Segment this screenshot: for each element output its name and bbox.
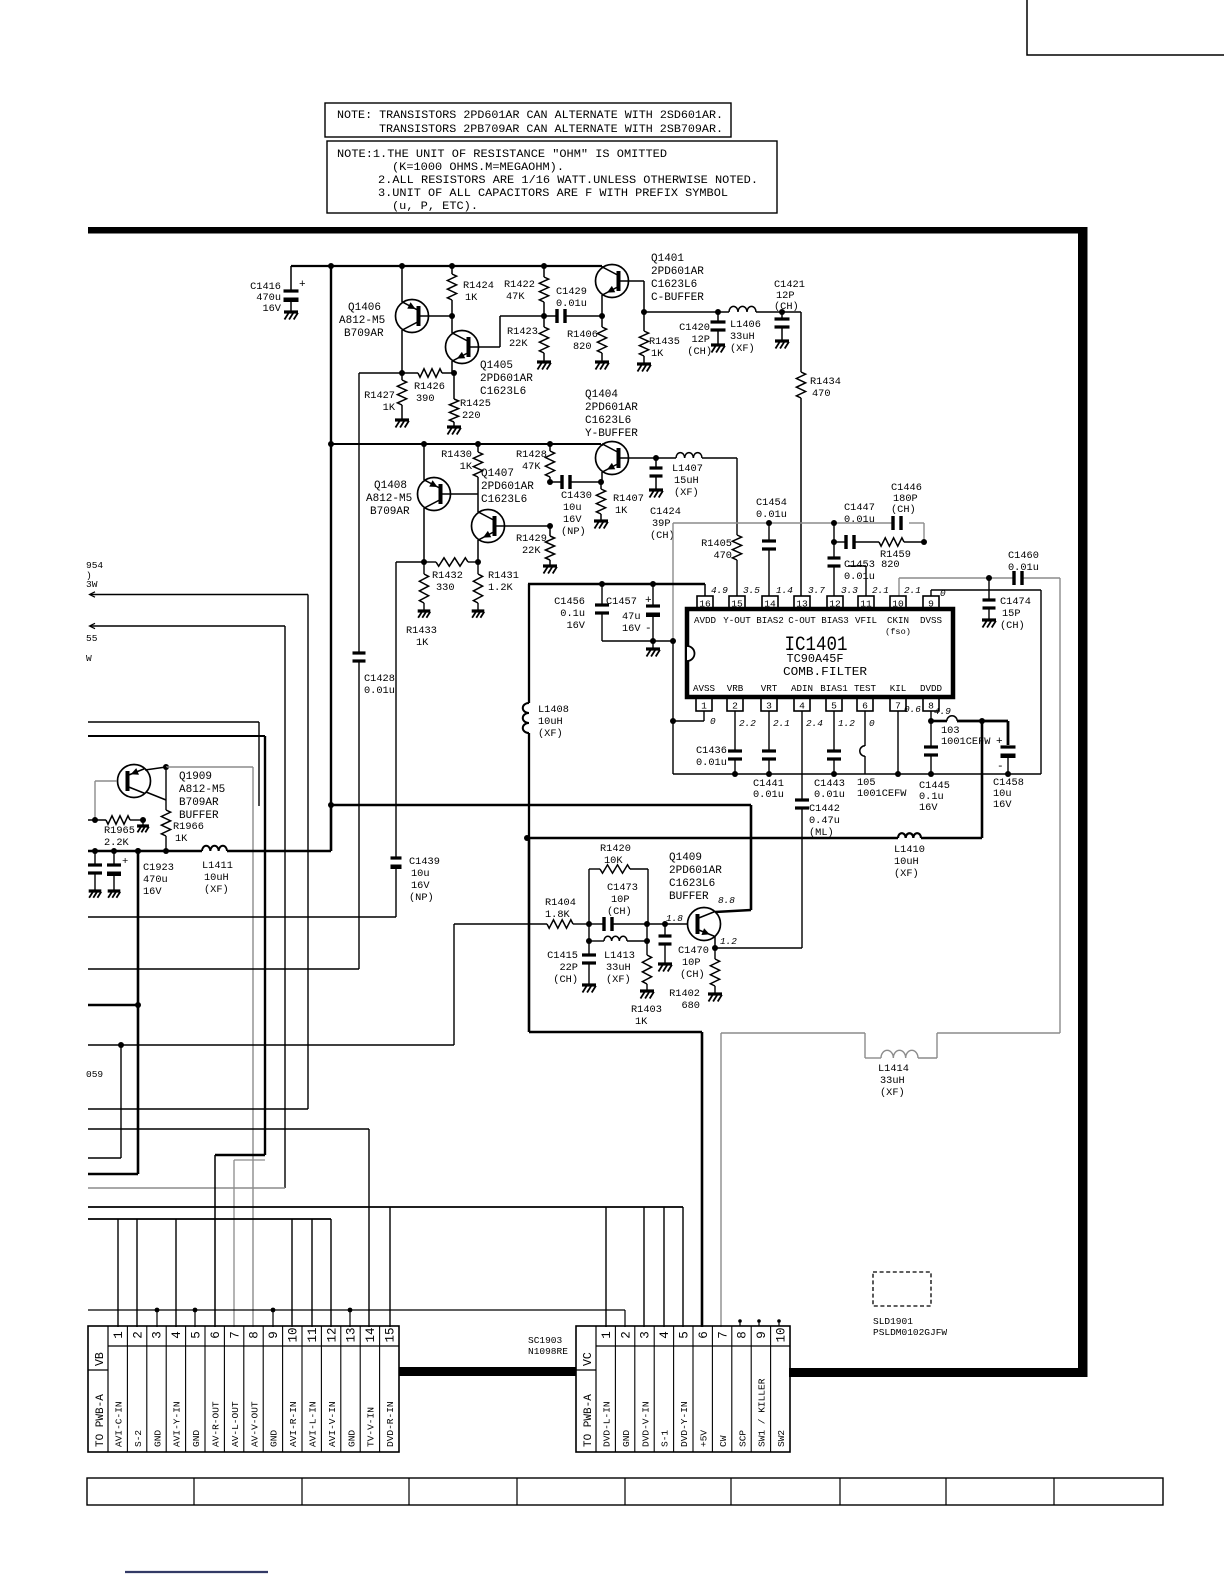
resistor R1422 [541,263,547,269]
svg-text:6: 6 [862,701,868,712]
svg-text:AVI-R-IN: AVI-R-IN [288,1401,299,1447]
capacitor C1460 [1012,571,1015,585]
svg-text:330: 330 [436,582,455,594]
svg-text:10: 10 [287,1327,301,1342]
svg-text:16V: 16V [622,623,641,635]
wire x=121 stub [120,1045,122,1158]
svg-text:C1430: C1430 [561,490,592,502]
svg-text:R1433: R1433 [406,625,437,637]
svg-text:GND: GND [269,1430,280,1447]
svg-text:1.8: 1.8 [666,913,683,924]
svg-text:15uH: 15uH [674,475,699,487]
resistor R1403 [642,955,651,984]
resistor R1402 [714,948,716,959]
svg-text:C1923: C1923 [143,862,174,874]
svg-text:5: 5 [678,1331,692,1339]
svg-text:A812-M5: A812-M5 [366,493,412,505]
transistor Q1401 [601,266,603,268]
svg-text:7: 7 [895,701,901,712]
svg-text:NOTE:1.THE UNIT OF RESISTANCE: NOTE:1.THE UNIT OF RESISTANCE "OHM" IS O… [337,149,667,161]
capacitor C1424 [653,455,659,461]
ground of R1425 [447,425,461,428]
svg-text:AVI-C-IN: AVI-C-IN [114,1401,125,1447]
svg-text:Y-OUT: Y-OUT [723,615,751,626]
svg-text:TO PWB-A: TO PWB-A [583,1394,595,1447]
svg-text:0.1u: 0.1u [560,608,585,620]
svg-text:680: 680 [681,1000,700,1012]
svg-text:BIAS1: BIAS1 [820,683,848,694]
svg-text:14: 14 [764,599,776,610]
resistor R1966 [165,767,167,810]
wire left chain to x=360 [359,372,402,374]
svg-text:R1428: R1428 [516,449,547,461]
svg-text:(XF): (XF) [880,1087,905,1099]
svg-text:2PD601AR: 2PD601AR [480,373,533,385]
svg-text:9: 9 [755,1331,769,1339]
svg-text:BIAS3: BIAS3 [821,615,849,626]
transistor Q1408 [421,441,427,447]
svg-text:AVDD: AVDD [694,615,717,626]
svg-text:1K: 1K [615,505,628,517]
capacitor C1441 [768,711,770,751]
svg-text:+: + [299,279,306,291]
capacitor C1439 [395,562,397,858]
wire C-out row [644,311,718,313]
svg-text:39P: 39P [652,518,671,530]
wire gray return y=1188 [88,1187,285,1189]
svg-text:C1470: C1470 [678,945,709,957]
wire gray pin7 feed [234,1159,265,1161]
wire emitter to pin4 net [715,947,802,949]
svg-text:059: 059 [86,1069,103,1080]
svg-text:KIL: KIL [890,683,907,694]
capacitor C1470 at base [662,921,668,927]
svg-text:11: 11 [860,599,872,610]
capacitor C1923 [113,851,115,865]
svg-text:16V: 16V [919,802,938,814]
svg-text:16V: 16V [566,620,585,632]
capacitor C1447 [831,520,837,526]
wire thick +5V drop x=982 [981,721,984,838]
svg-text:(fso): (fso) [885,627,911,637]
IC1401 bottom pin boxes 1..8 [696,698,712,711]
svg-text:0.01u: 0.01u [696,757,727,769]
svg-text:AV-V-OUT: AV-V-OUT [249,1401,260,1447]
wire GND distribution y=1310 [88,1309,625,1311]
svg-text:TO PWB-A: TO PWB-A [95,1394,107,1447]
svg-text:W: W [86,653,92,664]
ferrite bead 103 on pin8 [931,720,947,723]
ferrite bead 105 on pin6 [864,711,866,746]
bottom blue rule [125,1571,268,1573]
svg-text:BIAS2: BIAS2 [756,615,784,626]
svg-text:2.4: 2.4 [806,718,823,729]
svg-text:C1442: C1442 [809,803,840,815]
svg-text:PSLDM0102GJFW: PSLDM0102GJFW [873,1327,947,1338]
svg-text:TV-V-IN: TV-V-IN [366,1407,377,1447]
svg-text:10uH: 10uH [538,716,563,728]
resistor R1405 [702,457,737,459]
nodes on bus y=851 [92,848,98,854]
resistor R1434 [800,312,802,372]
wire ground line y=774 [673,773,1041,775]
resistor R1429 [547,523,553,529]
svg-text:3.UNIT OF ALL CAPACITORS ARE F: 3.UNIT OF ALL CAPACITORS ARE F WITH PREF… [378,188,728,200]
wire double line y=736 to pin6 jog [88,735,265,737]
svg-text:DVSS: DVSS [920,615,943,626]
svg-text:10uH: 10uH [894,856,919,868]
svg-text:COMB.FILTER: COMB.FILTER [783,665,867,679]
svg-text:2.1: 2.1 [872,585,889,596]
resistor R1432 [423,562,425,574]
svg-text:22K: 22K [522,545,541,557]
svg-text:DVD-V-IN: DVD-V-IN [640,1401,651,1447]
svg-text:47K: 47K [506,291,525,303]
capacitor C1443 [833,711,835,751]
svg-text:R1432: R1432 [432,570,463,582]
note box 1 border [325,103,731,137]
svg-text:C-BUFFER: C-BUFFER [651,292,704,304]
inductor L1410 [898,833,921,838]
capacitor C1454 [766,520,772,526]
svg-text:SCP: SCP [737,1430,748,1447]
svg-text:15: 15 [731,599,743,610]
thick top border [88,227,1087,234]
svg-text:1K: 1K [651,348,664,360]
svg-text:14: 14 [364,1327,378,1342]
svg-text:+: + [122,856,128,868]
svg-text:0.6: 0.6 [904,704,921,715]
resistor R1427 [401,373,403,380]
svg-text:C1460: C1460 [1008,550,1039,562]
svg-text:12: 12 [325,1327,339,1342]
svg-text:5: 5 [190,1331,204,1339]
svg-text:C1424: C1424 [650,506,681,518]
capacitor C1428 [353,651,366,654]
thick right border [1078,227,1088,1377]
svg-text:10uH: 10uH [204,872,229,884]
svg-text:3: 3 [639,1331,653,1339]
capacitor C1416 [290,266,292,291]
svg-text:R1405: R1405 [701,538,732,550]
resistor R1424 [449,263,455,269]
capacitor C1457 [650,581,656,587]
svg-text:L1407: L1407 [672,463,703,475]
svg-text:1.2K: 1.2K [488,582,514,594]
svg-text:1001CEFW: 1001CEFW [857,788,907,800]
svg-text:(CH): (CH) [1000,620,1025,632]
svg-text:C1439: C1439 [409,856,440,868]
svg-text:(CH): (CH) [774,301,799,313]
svg-text:R1407: R1407 [613,493,644,505]
svg-text:B709AR: B709AR [344,328,384,340]
svg-text:8: 8 [248,1331,262,1339]
svg-text:22K: 22K [509,338,528,350]
svg-text:C1473: C1473 [607,882,638,894]
svg-text:R1424: R1424 [463,280,494,292]
svg-text:(XF): (XF) [538,728,563,740]
svg-text:GND: GND [346,1430,357,1447]
svg-text:4: 4 [658,1331,672,1339]
svg-text:22P: 22P [559,962,578,974]
svg-text:3W: 3W [86,579,98,590]
svg-text:(K=1000 OHMS.M=MEGAOHM).: (K=1000 OHMS.M=MEGAOHM). [392,162,564,174]
svg-text:R1429: R1429 [516,533,547,545]
svg-text:C1415: C1415 [547,950,578,962]
svg-text:ADIN: ADIN [791,683,813,694]
svg-text:GND: GND [152,1430,163,1447]
svg-text:Q1404: Q1404 [585,389,618,401]
svg-text:(u, P, ETC).: (u, P, ETC). [392,201,478,213]
wire arrow line y=626 [90,623,96,628]
svg-text:1.8K: 1.8K [545,909,571,921]
svg-text:VB: VB [94,1352,107,1366]
svg-text:9: 9 [267,1331,281,1339]
resistor R1423 [541,313,547,319]
svg-text:(CH): (CH) [891,504,916,516]
svg-text:C1456: C1456 [554,596,585,608]
svg-text:(CH): (CH) [687,346,712,358]
wire pin8 DVDD node [930,711,932,721]
connector VB table [88,1326,399,1452]
svg-text:R1427: R1427 [364,390,395,402]
svg-text:B709AR: B709AR [179,797,219,809]
svg-text:33uH: 33uH [880,1075,905,1087]
svg-text:SW1 / KILLER: SW1 / KILLER [757,1378,768,1447]
svg-text:GND: GND [621,1430,632,1447]
svg-text:7: 7 [716,1331,730,1339]
svg-text:16V: 16V [411,880,430,892]
dashed box SLD1901 [873,1272,931,1306]
svg-text:R1403: R1403 [631,1004,662,1016]
svg-text:2.1: 2.1 [904,585,921,596]
wire y=562 R1433 chain [396,561,424,563]
svg-text:B709AR: B709AR [370,506,410,518]
svg-text:47u: 47u [622,611,641,623]
svg-text:16V: 16V [143,886,162,898]
svg-text:SLD1901: SLD1901 [873,1316,913,1327]
svg-text:12P: 12P [691,334,710,346]
svg-text:R1425: R1425 [460,398,491,410]
svg-text:16V: 16V [563,514,582,526]
transistor Q1404 [601,444,603,446]
capacitor C1429 [544,315,557,317]
capacitor C1436 [734,711,736,751]
svg-text:R1431: R1431 [488,570,519,582]
svg-text:0.01u: 0.01u [756,509,787,521]
svg-text:C1623L6: C1623L6 [669,878,715,890]
wire y=1207 multi-drop line [88,1206,683,1208]
svg-text:16: 16 [699,599,711,610]
transistor Q1409 [688,908,721,941]
wire y=1219 multi-drop line [88,1218,331,1220]
svg-text:GND: GND [191,1430,202,1447]
svg-text:(XF): (XF) [606,974,631,986]
svg-text:15P: 15P [1002,608,1021,620]
svg-text:0.01u: 0.01u [814,789,845,801]
resistor R1428 [547,441,553,447]
thick bottom-right border [789,1368,1087,1377]
inductor L1408 [528,584,530,703]
svg-text:6: 6 [697,1331,711,1339]
svg-text:AVI-L-IN: AVI-L-IN [308,1401,319,1447]
wire gray L1414 route [721,1032,865,1034]
svg-text:R1434: R1434 [810,376,841,388]
svg-text:9: 9 [928,599,934,610]
svg-text:10P: 10P [682,957,701,969]
svg-text:(XF): (XF) [894,868,919,880]
svg-text:1K: 1K [465,292,478,304]
svg-text:Q1405: Q1405 [480,360,513,372]
svg-text:5: 5 [831,701,837,712]
wire pin11 stub [865,566,867,596]
svg-text:0.01u: 0.01u [753,789,784,801]
svg-text:1: 1 [600,1331,614,1339]
svg-text:Q1407: Q1407 [481,468,514,480]
svg-text:L1413: L1413 [604,950,635,962]
wire bus y=444 [331,443,601,445]
svg-text:R1965: R1965 [104,825,135,837]
connector VC stub pins 8 9 10 [739,1322,741,1326]
svg-text:0.01u: 0.01u [844,571,875,583]
svg-text:16V: 16V [993,799,1012,811]
svg-text:1: 1 [701,701,707,712]
svg-text:16V: 16V [262,303,281,315]
svg-text:AV-L-OUT: AV-L-OUT [230,1401,241,1447]
svg-text:DVD-L-IN: DVD-L-IN [602,1401,613,1447]
svg-text:Y-BUFFER: Y-BUFFER [585,428,638,440]
capacitor C1420 [715,309,721,315]
wire thick collector supply y=805 [328,802,334,808]
svg-text:L1406: L1406 [730,319,761,331]
svg-text:DVDD: DVDD [920,683,943,694]
svg-text:R1402: R1402 [669,988,700,1000]
svg-text:0.47u: 0.47u [809,815,840,827]
svg-text:TEST: TEST [854,683,877,694]
wire pin9 net [930,590,932,596]
svg-text:6: 6 [209,1331,223,1339]
transistor Q1405 [451,316,453,333]
svg-text:VC: VC [582,1352,595,1366]
IC1401 top pin boxes 16..9 [697,596,713,609]
capacitor at x=95 [94,851,96,865]
svg-text:Q1408: Q1408 [374,480,407,492]
svg-text:47K: 47K [522,461,541,473]
resistor R1407 [598,479,604,485]
svg-text:VRB: VRB [727,683,744,694]
wire vertical x=331 upper [330,266,332,805]
svg-text:R1435: R1435 [649,336,680,348]
svg-text:33uH: 33uH [730,331,755,343]
svg-text:1K: 1K [175,833,188,845]
svg-text:AVSS: AVSS [693,683,716,694]
svg-text:10: 10 [775,1327,789,1342]
capacitor C1453 [833,542,835,558]
wire y=969 return [88,968,359,970]
svg-text:R1420: R1420 [600,843,631,855]
svg-text:0.01u: 0.01u [1008,562,1039,574]
svg-text:2PD601AR: 2PD601AR [669,865,722,877]
svg-text:R1423: R1423 [507,326,538,338]
capacitor C1415 [582,953,596,956]
svg-text:3: 3 [766,701,772,712]
svg-text:(XF): (XF) [674,487,699,499]
wire y=641 and ground [602,640,673,642]
svg-text:4.9: 4.9 [934,706,951,717]
svg-text:S-1: S-1 [660,1430,671,1447]
svg-text:1.2: 1.2 [838,718,855,729]
svg-text:(XF): (XF) [730,343,755,355]
inductor L1407 [656,457,676,459]
svg-text:7: 7 [228,1331,242,1339]
ground of R1427 [395,418,409,421]
wire y=1129 pin14 feed [88,1128,369,1130]
svg-text:0: 0 [940,588,946,599]
svg-text:+: + [645,595,652,607]
svg-text:VRT: VRT [761,683,778,694]
resistor R1404 [454,923,547,925]
svg-text:-: - [997,761,1004,773]
svg-text:0: 0 [710,716,716,727]
svg-text:1001CEFW: 1001CEFW [941,736,991,748]
svg-text:470u: 470u [143,874,168,886]
capacitor C1421 [756,311,801,313]
wire thick x=138 drop [135,848,141,854]
svg-text:10K: 10K [604,855,623,867]
svg-text:CKIN: CKIN [887,615,909,626]
svg-text:390: 390 [416,393,435,405]
svg-text:S-2: S-2 [133,1430,144,1447]
svg-text:A812-M5: A812-M5 [179,784,225,796]
svg-text:4: 4 [799,701,805,712]
capacitor C1458 [1007,721,1010,745]
wire arrow line y=594 [90,592,96,597]
svg-text:3: 3 [151,1331,165,1339]
svg-text:10u: 10u [563,502,582,514]
svg-text:R1404: R1404 [545,897,576,909]
inductor L1413 branch [588,924,590,955]
svg-text:55: 55 [86,633,98,644]
svg-text:2.1: 2.1 [773,718,790,729]
svg-text:R1430: R1430 [441,449,472,461]
node bus-x332 [328,263,334,269]
svg-text:10P: 10P [611,894,630,906]
svg-text:1K: 1K [416,637,429,649]
node x982 on pin8 net [979,718,985,724]
transistor Q1406 [401,266,403,302]
transistor Q1909 [118,765,151,798]
svg-text:SC1903: SC1903 [528,1335,563,1346]
resistor R1425 [453,373,455,399]
resistor R1420 bypass loop [588,869,590,924]
thick link VB to VC [399,1367,576,1376]
svg-text:1K: 1K [635,1016,648,1028]
top-right partial box [1027,0,1224,55]
wire top supply bus y=266 [291,265,602,267]
inductor L1411 [202,846,227,851]
wire pin7 KIL [897,711,899,774]
svg-text:L1411: L1411 [202,860,233,872]
svg-text:DVD-Y-IN: DVD-Y-IN [679,1401,690,1447]
capacitor C1473 [589,923,604,925]
svg-text:2: 2 [131,1331,145,1339]
svg-text:Q1909: Q1909 [179,771,212,783]
resistor R1430 [475,441,481,447]
svg-text:C-OUT: C-OUT [788,615,816,626]
svg-text:R1426: R1426 [414,381,445,393]
svg-text:470: 470 [812,388,831,400]
svg-text:2: 2 [732,701,738,712]
